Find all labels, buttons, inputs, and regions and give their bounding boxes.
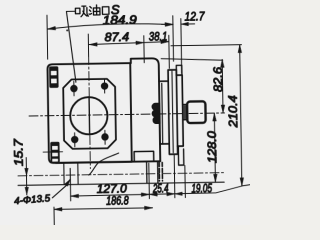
bolt hole bottom-left	[71, 133, 78, 147]
svg-text:87.4: 87.4	[104, 30, 129, 44]
extension line x145	[143, 36, 145, 63]
label leader for suction port	[66, 11, 76, 82]
char 油	[89, 5, 100, 15]
front cover	[176, 75, 183, 146]
dimension line 38.1	[144, 40, 169, 44]
svg-text:128.0: 128.0	[205, 131, 220, 164]
svg-text:15.7: 15.7	[11, 138, 25, 167]
char 口	[102, 7, 109, 15]
dimension row 127.0 / 25.4 / 19.05	[70, 185, 251, 198]
leader for 4-phi13.5	[52, 179, 70, 198]
dimension 15.7 vertical	[25, 158, 29, 195]
extension line for overall height top	[171, 45, 241, 46]
extension line centerline up	[87, 34, 89, 56]
extension lines bottom	[70, 155, 185, 201]
svg-text:25.4: 25.4	[152, 183, 168, 195]
pump body front view outline	[47, 63, 131, 163]
dimension line 87.4	[89, 41, 144, 46]
drain leader curve	[88, 153, 119, 175]
bolt hole top-left	[71, 81, 78, 96]
housing inner foot tray	[134, 151, 154, 161]
stray ink speck	[66, 29, 68, 31]
extension line cover face x182.3	[180, 19, 183, 73]
step block inner edge	[161, 83, 164, 143]
dimension line 12.7 (arrows outside)	[162, 22, 195, 26]
delivery port boss bottom-left (hatched)	[50, 142, 60, 163]
label text: suction port (hand-drawn CJK) 吸油口S	[75, 5, 109, 17]
svg-text:210.4: 210.4	[226, 95, 241, 129]
bolt hole top-right	[101, 79, 108, 93]
vertical centerline	[89, 56, 91, 169]
mounting plate (chamfered square)	[63, 79, 116, 149]
shaft collar	[183, 105, 188, 120]
svg-text:4-Φ13.5: 4-Φ13.5	[14, 193, 51, 207]
feet bottom face line	[18, 182, 224, 185]
char 吸	[75, 6, 88, 17]
dimension line 210.4 vertical	[238, 45, 244, 186]
pilot circle (spigot)	[70, 97, 108, 135]
bearing section (black)	[152, 103, 160, 123]
drive shaft head	[187, 101, 206, 123]
side view rear housing	[130, 58, 160, 161]
extension line x170	[168, 35, 171, 68]
svg-text:186.8: 186.8	[106, 193, 129, 207]
side view housing bottom edge	[56, 161, 160, 163]
bolt hole bottom-right	[102, 130, 109, 144]
extension line mounting face x174.3	[172, 16, 175, 61]
side foot hole hidden lines	[159, 162, 162, 181]
svg-text:184.9: 184.9	[103, 13, 137, 28]
svg-text:S: S	[111, 2, 120, 17]
side view step block	[159, 81, 169, 144]
horizontal centerline through views	[29, 113, 224, 116]
dimension line 184.9	[47, 23, 173, 30]
svg-text:38.1: 38.1	[149, 30, 168, 44]
foot hole center cross	[69, 168, 71, 184]
extension line 82.6 top	[161, 58, 223, 61]
vertical chord in pilot circle	[88, 97, 91, 134]
side view foot	[147, 161, 158, 183]
front feet edges	[64, 163, 78, 185]
dimension line 82.6 / 128.0 vertical	[212, 59, 226, 182]
dimension 186.8	[54, 206, 153, 227]
svg-text:82.6: 82.6	[211, 67, 225, 92]
flange inner bolt line	[172, 71, 173, 152]
suction port boss top-left (hatched)	[49, 66, 59, 88]
cover top ear	[176, 65, 182, 75]
svg-text:19.05: 19.05	[191, 183, 212, 195]
mounting flange plate	[168, 70, 178, 155]
feet holes centerline (dash-dot)	[18, 173, 224, 176]
svg-text:12.7: 12.7	[184, 9, 205, 23]
cover bottom ear	[178, 146, 183, 165]
extension line body left	[46, 15, 49, 59]
port centerline tick	[43, 151, 62, 153]
